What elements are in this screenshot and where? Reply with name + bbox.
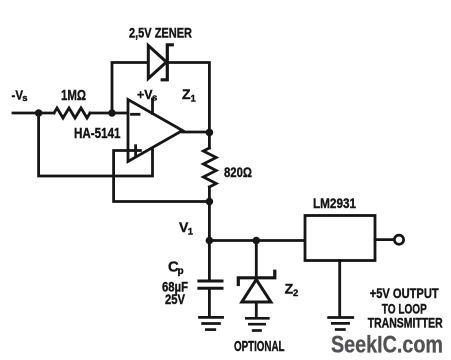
op-amp +Vs supply pin <box>151 99 154 114</box>
wire: -Vs input to 1M resistor <box>13 112 54 115</box>
svg-text:1: 1 <box>188 227 194 238</box>
zener diode Z2 triangle <box>242 280 271 303</box>
svg-text:2: 2 <box>293 288 298 299</box>
svg-text:s: s <box>152 93 157 104</box>
svg-text:820Ω: 820Ω <box>224 165 252 181</box>
wire: 820 resistor to V1 node <box>208 187 211 202</box>
node: junction dot branch to LM2931 <box>206 237 214 245</box>
node: junction dot at op-amp output <box>206 129 214 137</box>
svg-text:1: 1 <box>191 93 197 104</box>
node: junction dot at minus input <box>108 109 116 117</box>
capacitor Cp top plate <box>199 280 222 283</box>
op-amp minus symbol <box>132 113 140 116</box>
wire: output node down to 820 resistor <box>208 132 211 148</box>
node V1 junction dot <box>206 198 214 206</box>
node: junction dot branch to Z2 <box>252 237 260 245</box>
svg-text:p: p <box>178 266 184 277</box>
svg-text:TRANSMITTER: TRANSMITTER <box>368 315 443 331</box>
ground symbol under Cp <box>200 316 223 319</box>
wire: branch down to zener Z2 <box>255 241 258 278</box>
resistor R2 820 zigzag <box>203 148 216 187</box>
svg-text:OPTIONAL: OPTIONAL <box>234 338 285 355</box>
wire: feedback from minus input up to zener Z1 anode <box>112 63 148 114</box>
svg-text:LM2931: LM2931 <box>313 196 356 211</box>
svg-text:HA-5141: HA-5141 <box>74 126 121 142</box>
wire: resistor to op-amp minus input <box>90 112 128 115</box>
wire: capacitor to ground <box>208 289 211 317</box>
svg-text:s: s <box>22 93 27 104</box>
wire: Z2 anode to ground <box>255 302 258 317</box>
wire: LM2931 output <box>375 238 394 241</box>
zener diode Z1 cathode bar <box>162 45 172 80</box>
op-amp plus symbol <box>131 149 141 152</box>
ground symbol under LM2931 <box>329 316 353 319</box>
op-amp U1 triangle <box>128 100 183 162</box>
svg-text:2,5V ZENER: 2,5V ZENER <box>129 25 192 40</box>
wire: V1 node down to capacitor <box>208 202 211 280</box>
wire: zener cathode right and down to output node <box>169 63 209 132</box>
wire: plus input loop to V1 node <box>114 151 210 202</box>
wire: op-amp output <box>183 131 210 134</box>
wire: -Vs down, right, up to op-amp V- pin <box>39 113 153 176</box>
regulator U2 LM2931 box <box>305 216 375 261</box>
node: junction dot at -Vs input <box>35 109 43 117</box>
svg-text:25V: 25V <box>165 292 185 307</box>
wire: LM2931 ground pin <box>338 261 341 317</box>
ground symbol under Z2 <box>246 317 268 320</box>
svg-text:SeekIC.com: SeekIC.com <box>331 331 443 358</box>
wire: branch to LM2931 input <box>209 239 305 242</box>
output terminal circle <box>394 235 403 244</box>
resistor R1 1M zigzag <box>54 108 90 118</box>
zener diode Z2 cathode bar <box>238 271 274 284</box>
svg-text:1MΩ: 1MΩ <box>61 88 86 104</box>
capacitor Cp bottom plate <box>199 287 222 290</box>
zener diode Z1 triangle <box>148 46 166 79</box>
svg-text:+5V OUTPUT: +5V OUTPUT <box>370 285 439 301</box>
svg-text:+V: +V <box>137 87 153 102</box>
